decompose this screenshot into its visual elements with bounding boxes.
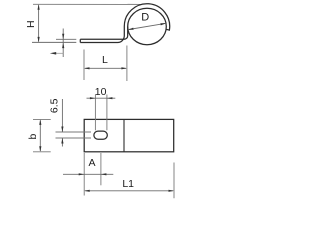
dimension A line — [63, 173, 113, 175]
plate outline (plan view) — [84, 119, 174, 151]
dimension L1 extension line right — [173, 163, 175, 199]
svg-text:H: H — [25, 20, 37, 28]
dimension 10 extension lines — [94, 95, 96, 131]
dimension 10 line — [87, 97, 116, 99]
dimension b line — [39, 119, 41, 151]
dimension A extension line right (slot centre) — [100, 153, 102, 185]
dimension b ticks — [33, 118, 51, 120]
loop inner circle — [128, 8, 167, 44]
svg-text:D: D — [141, 11, 149, 23]
wire: baseline / bottom extension line — [32, 41, 76, 43]
thickness dimension — [62, 29, 64, 58]
loop outer arc with end cap — [124, 4, 169, 30]
svg-text:L1: L1 — [122, 178, 134, 190]
dimension 6.5 line — [61, 99, 63, 147]
svg-text:6.5: 6.5 — [49, 98, 61, 113]
slot (oblong hole) — [94, 131, 107, 139]
dimension L line — [84, 67, 127, 69]
wire: top extension line (top of loop) — [33, 3, 141, 5]
svg-text:10: 10 — [95, 86, 107, 98]
dimension L extension line left — [83, 50, 85, 81]
clip strip side view (dark outline) — [80, 27, 127, 43]
dimension L1 line — [84, 190, 174, 192]
svg-text:b: b — [27, 134, 39, 140]
bend line — [123, 119, 125, 151]
dimension D line — [128, 23, 166, 30]
wire: strip left piece top edge — [56, 38, 76, 40]
dimension A extension line (plate left edge, shared with L1) — [83, 153, 85, 196]
dimension H line — [38, 4, 40, 42]
dimension L extension line right — [126, 46, 128, 82]
svg-text:A: A — [88, 157, 95, 169]
thickness leader arrow — [55, 52, 63, 54]
dimension 6.5 extension lines — [56, 131, 92, 133]
svg-text:L: L — [102, 54, 108, 66]
